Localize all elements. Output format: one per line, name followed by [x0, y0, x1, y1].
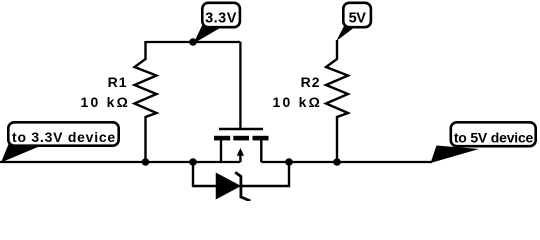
transistor Q1 gate plate	[219, 128, 263, 131]
svg-text:to 3.3V device: to 3.3V device	[12, 129, 116, 145]
transistor Q1 drain contact	[253, 136, 269, 141]
transistor Q1 source contact	[214, 136, 230, 141]
callout to-5V-device tail	[431, 146, 480, 164]
transistor Q1 source leg	[220, 140, 222, 162]
node 3.3V rail junction	[189, 38, 197, 46]
wire gate lead from 3.3V rail	[239, 42, 241, 128]
node diode loop right junction	[285, 158, 293, 166]
wire 3.3V top rail	[146, 41, 241, 43]
svg-text:3.3V: 3.3V	[205, 10, 237, 26]
svg-text:10 kΩ: 10 kΩ	[81, 94, 130, 110]
wire body-diode loop right	[241, 162, 289, 186]
transistor Q1 body leg with arrow	[239, 153, 241, 162]
callout 3.3V box	[202, 3, 240, 27]
wire left net: to-3.3V-device rail	[0, 161, 240, 163]
node R1 bottom junction	[142, 158, 150, 166]
svg-text:10 kΩ: 10 kΩ	[273, 94, 322, 110]
callout 3.3V tail	[194, 24, 221, 44]
transistor Q1 body contact	[233, 136, 249, 141]
svg-text:R2: R2	[301, 74, 321, 90]
callout 5V tail	[336, 26, 353, 41]
diode D1 zener cathode bar	[235, 172, 250, 201]
node R2 bottom junction	[333, 158, 341, 166]
callout to-5V-device box	[451, 122, 536, 146]
callout to-3.3V-device box	[8, 122, 118, 145]
svg-text:5V: 5V	[349, 10, 367, 26]
callout to-3.3V-device tail	[1, 143, 39, 163]
svg-text:to 5V device: to 5V device	[454, 129, 534, 145]
wire body-diode loop left	[193, 162, 216, 186]
wire right net: to-5V-device rail	[261, 161, 432, 163]
diode D1 (zener body diode) triangle	[217, 174, 240, 199]
transistor Q1 drain leg	[260, 140, 262, 162]
callout 5V box	[343, 3, 371, 27]
node diode loop left junction	[189, 158, 197, 166]
svg-text:R1: R1	[108, 74, 128, 90]
resistor R1	[135, 41, 157, 162]
resistor R2	[326, 40, 348, 162]
